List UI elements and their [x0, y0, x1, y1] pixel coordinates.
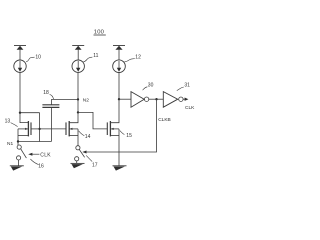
wire: source of 14 down to switch 17: [77, 129, 79, 146]
svg-text:CLK: CLK: [40, 152, 51, 158]
svg-text:16: 16: [38, 164, 44, 170]
ground (switch 16): [10, 166, 24, 171]
VDD rail symbol (middle): [72, 46, 84, 60]
svg-text:N1: N1: [7, 141, 13, 147]
svg-text:11: 11: [93, 53, 98, 59]
wire: capacitor top to node N2: [51, 98, 78, 100]
switch 17: [75, 146, 85, 164]
transistor 14: [66, 112, 78, 136]
label 17: [92, 162, 98, 168]
label 16: [38, 164, 44, 170]
leader of label 31: [177, 87, 184, 91]
svg-text:N2: N2: [83, 97, 89, 103]
label CLK (switch 16 control): [40, 152, 51, 158]
svg-text:18: 18: [43, 90, 49, 96]
svg-text:13: 13: [5, 118, 11, 124]
leader of label 30: [143, 87, 148, 90]
transistor 15: [107, 99, 119, 136]
label CLK (output): [185, 105, 195, 111]
node N1 wire: [18, 141, 51, 143]
label 11: [93, 53, 98, 59]
node N1 junction dot: [17, 140, 19, 142]
junction dot node 20: [118, 98, 120, 100]
wire: current source 11 down to N2: [77, 73, 79, 113]
label 13: [5, 118, 11, 124]
label N2: [83, 97, 89, 103]
wire: vertical from top wire down through gate node to N1: [39, 113, 41, 142]
junction dot CLKB node: [155, 98, 157, 100]
label 12: [135, 55, 141, 61]
svg-text:CLKB: CLKB: [158, 117, 171, 123]
svg-text:14: 14: [85, 134, 91, 140]
svg-text:17: 17: [92, 162, 98, 168]
transistor 13 (mirrored, gate at right): [18, 113, 40, 142]
figure label 100: [94, 30, 104, 36]
wire: inverter 30 output to inverter 31 input: [149, 98, 164, 100]
svg-text:30: 30: [148, 82, 154, 88]
leader of label 14: [79, 131, 85, 136]
label 10: [35, 55, 41, 61]
CLKB feedback wire: [86, 99, 156, 152]
label 15: [126, 133, 132, 139]
current source 11: [72, 60, 84, 72]
svg-text:10: 10: [35, 55, 41, 61]
CLKB control arrow at switch 17: [82, 151, 86, 154]
leader of label 15: [120, 131, 125, 135]
wire: gate feed of transistor 15: [78, 112, 107, 128]
node N2 junction dot: [77, 98, 79, 100]
leader of label 17: [86, 155, 92, 161]
CLK control arrow at switch 16: [31, 153, 39, 155]
wire: node 20 to inverter 30 input: [119, 98, 131, 100]
wire: top horizontal of transistor 13: [20, 112, 40, 114]
leader of label 12: [124, 58, 134, 61]
wire: current source 12 to node 20: [118, 73, 120, 100]
junction dot below N2: [77, 111, 79, 113]
leader of label 11: [83, 57, 92, 62]
leader of label 16: [30, 159, 38, 165]
junction dot at (22,112): [19, 112, 21, 114]
VDD rail symbol (right): [113, 46, 125, 60]
ground (switch 17): [71, 163, 85, 168]
svg-text:12: 12: [135, 55, 141, 61]
current source 12: [113, 60, 126, 73]
label 30: [148, 82, 154, 88]
label 14: [85, 134, 91, 140]
label 18: [43, 90, 49, 96]
leader of label 10: [26, 57, 35, 62]
label 31: [184, 83, 190, 89]
svg-text:CLK: CLK: [185, 105, 195, 111]
wire: source of 15 down to ground: [118, 129, 120, 166]
label CLKB: [158, 117, 171, 123]
svg-text:15: 15: [126, 133, 132, 139]
label N1: [7, 141, 13, 147]
wire: common gate wire 13-14: [40, 128, 66, 130]
VDD rail symbol (left): [14, 46, 26, 60]
leader of label 18: [50, 94, 54, 99]
switch 16: [17, 142, 27, 166]
inverter 31: [163, 92, 183, 108]
inverter 30: [131, 92, 149, 108]
CLK output wire and arrow: [183, 98, 185, 100]
leader of label 13: [11, 123, 18, 127]
underline of 100: [94, 34, 106, 36]
current source 10: [14, 60, 26, 72]
ground (transistor 15 source): [113, 166, 127, 171]
svg-text:31: 31: [184, 83, 190, 89]
wire: current source 10 down to node: [19, 72, 21, 112]
junction dot gate node of 13/14: [38, 128, 40, 130]
capacitor 18: [42, 99, 59, 141]
